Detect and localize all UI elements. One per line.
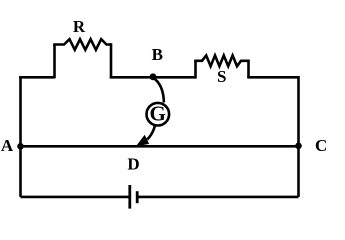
svg-text:G: G — [150, 102, 166, 126]
svg-text:D: D — [127, 154, 139, 173]
resistor R1 (R) zigzag with leads — [53, 39, 111, 50]
node B junction dot — [150, 73, 157, 80]
wire: middle horizontal at y=77 from R step to node B to S step-up — [110, 76, 196, 79]
wire: right vertical from top wire down to bottom wire — [297, 76, 300, 197]
svg-text:R: R — [73, 17, 86, 36]
wire: bottom wire left segment (A side to battery) — [21, 196, 130, 199]
svg-text:C: C — [315, 136, 327, 155]
wire: right horizontal at y=77 from S step to right vertical — [247, 76, 298, 79]
resistor R2 (S) zigzag with leads — [194, 55, 248, 66]
battery B1 short plate (negative) — [136, 191, 139, 203]
node C junction dot — [295, 143, 302, 150]
svg-text:A: A — [1, 136, 14, 155]
wire: R left step-up vertical — [53, 45, 56, 79]
wire: curved galvanometer lead from node B into circle — [153, 78, 164, 103]
wire: left vertical from top-left step down to bottom wire — [19, 76, 22, 197]
battery B1 long plate (positive) — [128, 185, 131, 209]
svg-text:B: B — [152, 45, 163, 64]
wire: S right step-down vertical — [247, 60, 250, 78]
svg-text:S: S — [217, 67, 226, 86]
wire: bottom wire right segment (battery to C side) — [137, 196, 298, 199]
wire: curved galvanometer lead from circle to jockey arrow at D — [147, 126, 155, 139]
wire: bridge wire A to C — [21, 145, 299, 148]
jockey arrowhead touching wire at D — [137, 136, 148, 146]
galvanometer U1 circle — [147, 103, 170, 126]
wire: R right step-down vertical — [110, 43, 113, 77]
wire: top-left step horizontal at y=77 from left vertical to R step-up — [19, 76, 54, 79]
wire: S left step-up vertical — [194, 61, 197, 79]
node A junction dot — [17, 143, 24, 150]
